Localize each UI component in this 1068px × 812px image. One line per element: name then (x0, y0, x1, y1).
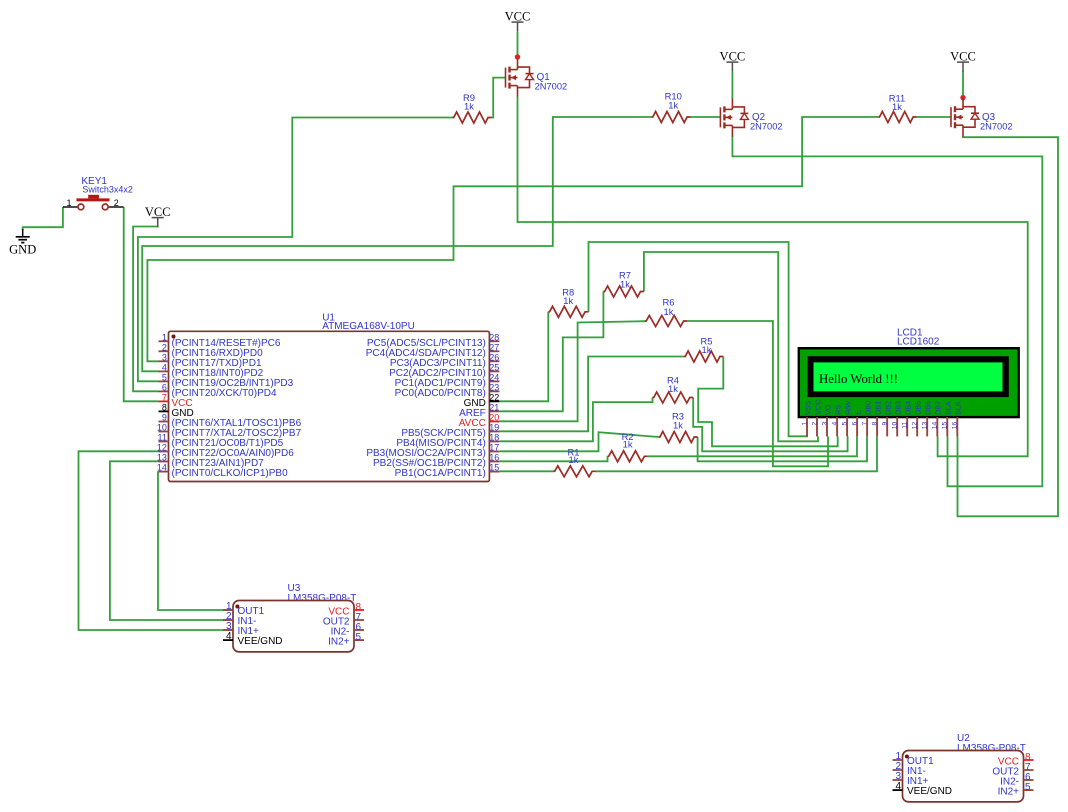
U1 pin 24 PC1(ADC1/PCINT9) (395, 372, 500, 389)
svg-text:4: 4 (832, 421, 839, 425)
svg-text:12: 12 (912, 421, 919, 429)
svg-text:13: 13 (922, 421, 929, 429)
wire KEY1 pin1 to GND (23, 207, 63, 230)
svg-text:VCC: VCC (950, 49, 976, 63)
svg-text:9: 9 (882, 421, 889, 425)
U2 pin 7 OUT2 (992, 762, 1033, 778)
U1 pin 9 (PCINT6/XTAL1/TOSC1)PB6 (159, 413, 302, 430)
U1 pin 16 PB2(SS#/OC1B/PCINT2) (373, 453, 499, 470)
U1 pin 28 PC5(ADC5/SCL/PCINT13) (367, 332, 500, 349)
wire U1 pin18 to R4 (499, 398, 652, 442)
svg-text:BLA: BLA (944, 401, 953, 415)
U3 pin 5 IN2+ (328, 632, 364, 648)
wire Q2 source to LCD1 pin15 (732, 136, 1042, 487)
svg-text:2N7002: 2N7002 (980, 121, 1013, 131)
svg-text:1k: 1k (623, 439, 633, 450)
wire U1 pin20 to R6 (499, 321, 645, 421)
svg-text:23: 23 (489, 382, 499, 392)
wire U1 pin13 to U3 pin2 (110, 461, 232, 620)
U1 pin 15 PB1(OC1A/PCINT1) (395, 463, 500, 480)
LCD1 LCD1602 display module (799, 327, 1019, 417)
svg-text:Hello World !!!: Hello World !!! (819, 372, 898, 386)
wire KEY1 pin2 to U1 pin7 (124, 207, 159, 401)
power VCC symbol at x=963.0 (950, 49, 976, 72)
svg-text:3: 3 (162, 352, 167, 362)
resistor R9 1k (453, 92, 492, 123)
svg-text:25: 25 (489, 362, 499, 372)
svg-text:26: 26 (489, 352, 499, 362)
svg-text:8: 8 (872, 421, 879, 425)
U3 pin 4 VEE/GND (223, 631, 283, 647)
svg-text:5: 5 (356, 632, 362, 643)
wire R5 to LCD1 pin4 RS (698, 357, 838, 447)
svg-text:1k: 1k (664, 306, 674, 317)
svg-text:17: 17 (489, 443, 499, 453)
LCD1 pin 3 VO (821, 404, 832, 436)
U2 pin 2 IN1- (893, 761, 926, 777)
wire R8 to LCD1 pin1 VSS (589, 242, 809, 436)
svg-text:5: 5 (842, 421, 849, 425)
svg-text:10: 10 (157, 423, 167, 433)
U3 pin 1 OUT1 (223, 601, 265, 617)
svg-text:1: 1 (66, 198, 71, 208)
wire R1 to LCD1 pin8 DB1 (596, 436, 878, 471)
resistor R10 1k (652, 91, 691, 123)
wire R3 to LCD1 pin7 DB0 (698, 436, 867, 461)
svg-text:1k: 1k (620, 279, 630, 290)
svg-text:6: 6 (852, 421, 859, 425)
resistor R6 1k (645, 297, 687, 327)
transistor Q2 2N7002 (720, 98, 782, 137)
svg-text:E: E (854, 410, 863, 415)
wire R6 to LCD1 pin3 VO (687, 321, 828, 466)
wire U1 pin12 to U3 pin3 (79, 451, 233, 630)
LCD1 pin 7 DB0 (862, 401, 873, 436)
svg-text:BLK: BLK (954, 401, 963, 415)
U1 pin 14 (PCINT0/CLKO/ICP1)PB0 (157, 463, 288, 480)
U1 pin 2 (PCINT16/RXD)PD0 (159, 342, 264, 359)
U3 pin 3 IN1+ (223, 621, 259, 637)
svg-text:20: 20 (489, 413, 499, 423)
svg-text:15: 15 (942, 421, 949, 429)
resistor R2 1k (608, 431, 648, 462)
op-amp U2 LM358G-P08-T (903, 733, 1026, 802)
LCD1 pin 16 BLK (952, 401, 963, 436)
svg-text:LCD1602: LCD1602 (897, 336, 940, 347)
svg-text:1k: 1k (668, 99, 678, 110)
svg-text:VCC: VCC (505, 9, 531, 23)
U1 pin 20 AVCC (459, 413, 500, 430)
U1 pin 17 PB3(MOSI/OC2A/PCINT3) (366, 443, 499, 460)
U3 pin 8 VCC (328, 602, 364, 618)
power VCC symbol at x=732.4 (720, 49, 746, 72)
wire R11 right to Q3 gate (917, 116, 952, 118)
svg-text:1k: 1k (668, 383, 678, 394)
U1 pin 4 (PCINT18/INT0)PD2 (159, 362, 264, 379)
svg-text:DB6: DB6 (924, 401, 933, 415)
LCD1 pin 9 DB2 (882, 401, 893, 436)
U1 pin 8 GND (159, 402, 194, 419)
op-amp U3 LM358G-P08-T (233, 583, 356, 652)
IC U1 ATMEGA168V-10PU microcontroller (169, 313, 490, 482)
wire VCC to U1 pin6 (133, 227, 158, 392)
svg-text:DB3: DB3 (894, 401, 903, 415)
junction dot Q3 drain (960, 95, 965, 100)
svg-text:DB0: DB0 (864, 401, 873, 415)
U1 pin 5 (PCINT19/OC2B/INT1)PD3 (159, 372, 294, 389)
LCD1 pin 5 R/W (842, 401, 853, 437)
svg-text:1: 1 (801, 421, 808, 425)
power VCC symbol at x=157.7 (145, 205, 171, 228)
svg-text:14: 14 (157, 463, 167, 473)
U1 pin 6 (PCINT20/XCK/T0)PD4 (159, 382, 277, 399)
resistor R11 1k (878, 93, 916, 123)
svg-text:1k: 1k (673, 419, 683, 430)
svg-text:27: 27 (489, 342, 499, 352)
resistor R7 1k (603, 269, 644, 297)
U2 pin 1 OUT1 (893, 751, 935, 767)
wire R10 right to Q2 gate (691, 116, 721, 118)
svg-text:VEE/GND: VEE/GND (907, 786, 952, 797)
resistor R1 1k (554, 447, 596, 477)
U2 pin 3 IN1+ (893, 771, 929, 787)
LCD1 pin 8 DB1 (872, 401, 883, 436)
LCD1 pin 13 DB6 (922, 401, 933, 436)
U1 pin 7 VCC (159, 392, 193, 409)
U1 pin 27 PC4(ADC4/SDA/PCINT12) (366, 342, 500, 359)
wire U1 pin21 to R7 (499, 292, 603, 412)
svg-text:R/W: R/W (844, 401, 853, 415)
svg-text:12: 12 (157, 443, 167, 453)
U1 pin 21 AREF (459, 402, 499, 419)
U2 pin 5 IN2+ (998, 782, 1034, 798)
svg-text:2: 2 (162, 342, 167, 352)
U1 pin 10 (PCINT7/XTAL2/TOSC2)PB7 (157, 423, 302, 440)
resistor R8 1k (548, 286, 588, 317)
svg-text:16: 16 (952, 421, 959, 429)
U2 pin 6 IN2- (1000, 772, 1033, 788)
wire R9 right to Q1 gate (492, 78, 506, 118)
wire U1 pin16 to R2 (499, 456, 607, 461)
U1 pin 25 PC2(ADC2/PCINT10) (389, 362, 499, 379)
wire VCC to Q1 drain (517, 32, 519, 59)
svg-text:13: 13 (157, 453, 167, 463)
transistor Q1 2N7002 (506, 58, 568, 97)
svg-text:DB7: DB7 (934, 401, 943, 415)
wire VCC to Q3 drain (962, 71, 964, 96)
ground GND symbol (9, 229, 36, 257)
switch KEY1 Switch3x4x2 (63, 176, 133, 210)
wire VCC to Q2 drain (731, 72, 733, 98)
svg-text:VO: VO (823, 404, 832, 415)
LCD1 pin 10 DB3 (892, 401, 903, 436)
svg-text:1k: 1k (702, 344, 712, 355)
svg-text:Switch3x4x2: Switch3x4x2 (82, 184, 133, 194)
svg-text:10: 10 (892, 421, 899, 429)
svg-text:21: 21 (489, 402, 499, 412)
svg-text:14: 14 (932, 421, 939, 429)
svg-text:DB5: DB5 (914, 401, 923, 415)
svg-text:28: 28 (489, 332, 499, 342)
svg-text:DB2: DB2 (884, 401, 893, 415)
U1 pin 26 PC3(ADC3/PCINT11) (390, 352, 500, 369)
svg-text:VCC: VCC (813, 400, 822, 415)
wire R7 to LCD1 pin2 VCC (644, 252, 818, 441)
svg-text:VCC: VCC (145, 205, 171, 219)
svg-text:4: 4 (226, 631, 232, 642)
U1 pin 22 GND (464, 392, 500, 409)
LCD1 pin 6 E (852, 410, 863, 437)
wire U1 pin22 to R8 (499, 312, 548, 402)
wire R11 left to U1 pin3 (147, 117, 878, 361)
LCD1 pin 4 RS (832, 405, 843, 437)
wire U1 pin19 to R5 (499, 357, 684, 432)
U2 pin 4 VEE/GND (893, 781, 953, 797)
svg-text:(PCINT0/CLKO/ICP1)PB0: (PCINT0/CLKO/ICP1)PB0 (172, 468, 289, 479)
svg-text:2: 2 (114, 198, 119, 208)
U1 pin 13 (PCINT23/AIN1)PD7 (157, 453, 264, 470)
svg-text:7: 7 (862, 421, 869, 425)
wire R4 to LCD1 pin5 R/W (693, 398, 847, 452)
svg-text:2N7002: 2N7002 (535, 82, 568, 92)
svg-text:11: 11 (158, 433, 167, 443)
svg-text:VSS: VSS (803, 400, 812, 415)
svg-text:7: 7 (162, 392, 167, 402)
svg-text:8: 8 (162, 402, 167, 412)
svg-text:1k: 1k (569, 454, 579, 465)
svg-text:1k: 1k (563, 295, 573, 306)
svg-text:2N7002: 2N7002 (750, 122, 783, 132)
U1 pin 12 (PCINT22/OC0A/AIN0)PD6 (157, 443, 294, 460)
wire U1 pin17 to R3 (499, 432, 658, 451)
wire Q3 source to LCD1 pin16 (958, 136, 1059, 517)
U3 pin 2 IN1- (223, 611, 256, 627)
resistor R4 1k (653, 375, 694, 404)
U1 pin 23 PC0(ADC0/PCINT8) (395, 382, 500, 399)
svg-text:LM358G-P08-T: LM358G-P08-T (288, 593, 357, 604)
svg-text:3: 3 (821, 421, 828, 425)
U3 pin 6 IN2- (331, 622, 364, 638)
U2 pin 8 VCC (998, 752, 1034, 768)
svg-text:1k: 1k (892, 101, 902, 112)
junction dot Q1 drain (515, 54, 520, 59)
U1 pin 3 (PCINT17/TXD)PD1 (159, 352, 262, 369)
svg-text:5: 5 (162, 372, 167, 382)
LCD1 pin 1 VSS (801, 400, 812, 436)
svg-text:1k: 1k (464, 100, 474, 111)
U1 pin 1 (PCINT14/RESET#)PC6 (159, 332, 281, 349)
svg-text:RS: RS (834, 405, 843, 415)
LCD1 pin 15 BLA (942, 401, 953, 436)
svg-text:9: 9 (162, 413, 167, 423)
svg-text:2: 2 (811, 421, 818, 425)
svg-text:22: 22 (489, 392, 499, 402)
svg-text:1: 1 (162, 332, 167, 342)
svg-text:4: 4 (895, 781, 901, 792)
svg-text:24: 24 (489, 372, 499, 382)
svg-text:IN2+: IN2+ (328, 637, 350, 648)
svg-text:15: 15 (489, 463, 499, 473)
svg-text:DB1: DB1 (874, 401, 883, 415)
U1 pin 18 PB4(MISO/PCINT4) (396, 433, 499, 450)
wire U1 pin14 to U3 pin1 (158, 471, 232, 610)
svg-text:16: 16 (489, 453, 499, 463)
resistor R3 1k (659, 411, 698, 443)
svg-text:19: 19 (489, 423, 499, 433)
svg-text:VCC: VCC (720, 49, 746, 63)
svg-text:LM358G-P08-T: LM358G-P08-T (957, 743, 1026, 754)
svg-text:6: 6 (162, 382, 167, 392)
wire R10 left to U1 pin4 (142, 117, 651, 371)
U1 pin1 marker dot (172, 335, 176, 339)
svg-text:5: 5 (1025, 782, 1031, 793)
LCD1 pin 14 DB7 (932, 401, 943, 436)
svg-text:4: 4 (162, 362, 167, 372)
wire R9 left to U1 pin5 (138, 118, 453, 382)
wire Q1 source to LCD1 pin14 (518, 97, 1028, 456)
U1 pin 19 PB5(SCK/PCINT5) (401, 423, 499, 440)
resistor R5 1k (684, 336, 723, 363)
power VCC symbol at x=517.5 (505, 9, 531, 32)
LCD1 pin 12 DB5 (912, 401, 923, 436)
LCD1 pin 11 DB4 (902, 401, 913, 436)
LCD1 pin 2 VCC (811, 400, 822, 437)
svg-text:VEE/GND: VEE/GND (238, 636, 283, 647)
svg-text:GND: GND (9, 243, 36, 257)
svg-text:PB1(OC1A/PCINT1): PB1(OC1A/PCINT1) (395, 468, 486, 479)
U1 pin 11 (PCINT21/OC0B/T1)PD5 (158, 433, 284, 450)
svg-text:11: 11 (902, 421, 909, 428)
wire U1 pin15 to R1 (499, 470, 553, 472)
U3 pin 7 OUT2 (323, 612, 364, 628)
svg-text:IN2+: IN2+ (998, 787, 1020, 798)
transistor Q3 2N7002 (951, 98, 1013, 137)
wire R2 to LCD1 pin6 E (648, 436, 857, 456)
svg-text:18: 18 (489, 433, 499, 443)
svg-text:DB4: DB4 (904, 401, 913, 415)
